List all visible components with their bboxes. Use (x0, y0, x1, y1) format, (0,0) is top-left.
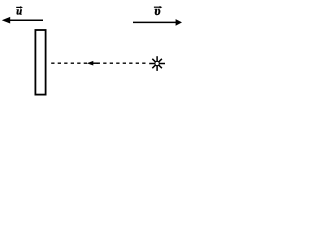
svg-text:u: u (16, 7, 22, 18)
